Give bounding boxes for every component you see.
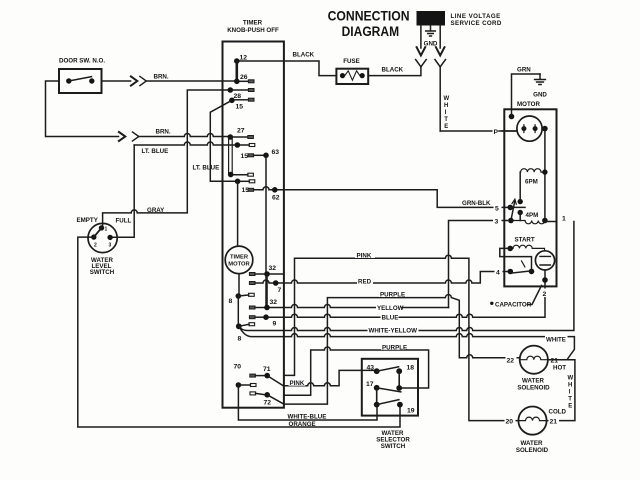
- svg-text:32: 32: [269, 265, 277, 272]
- timer motor M: [237, 181, 239, 246]
- svg-text:SWITCH: SWITCH: [90, 269, 115, 276]
- selector node 18: [396, 368, 402, 374]
- svg-text:START: START: [515, 236, 535, 243]
- terminal 15 lt.blue row dot: [235, 142, 241, 148]
- svg-text:WATER: WATER: [521, 440, 543, 447]
- pin 3: [493, 217, 502, 225]
- terminal 32b: [249, 306, 255, 309]
- timer box: [223, 42, 284, 408]
- blade 72: [267, 395, 284, 404]
- start sw frame jog: [500, 248, 532, 268]
- terminal 12: [234, 58, 240, 64]
- wire RED timer 7 to motor 4: [279, 272, 508, 284]
- solenoid HOT: [520, 346, 548, 374]
- svg-text:71: 71: [263, 366, 271, 373]
- svg-text:LINE VOLTAGE: LINE VOLTAGE: [451, 13, 501, 20]
- svg-text:TIMER: TIMER: [230, 255, 249, 261]
- svg-text:21: 21: [550, 419, 558, 426]
- selector blade 43-18: [377, 367, 399, 371]
- svg-text:GRN-BLK: GRN-BLK: [462, 200, 491, 207]
- svg-text:GRN: GRN: [517, 67, 531, 74]
- water level switch: [88, 223, 117, 252]
- selector node 18b: [396, 385, 402, 391]
- svg-text:5: 5: [495, 206, 499, 213]
- water selector switch box: [362, 359, 418, 416]
- motor box: [504, 109, 556, 286]
- svg-text:PURPLE: PURPLE: [380, 292, 405, 299]
- svg-text:E: E: [444, 124, 448, 130]
- svg-text:22: 22: [507, 358, 515, 365]
- service cord line L1 arrow: [420, 26, 422, 49]
- svg-text:FUSE: FUSE: [343, 58, 360, 65]
- blade 3 with arrow: [511, 201, 515, 221]
- svg-text:W: W: [444, 96, 450, 102]
- connector chevron on black line: [416, 60, 427, 67]
- svg-text:CONNECTION: CONNECTION: [328, 9, 410, 24]
- wire WHITE timer 8 to solenoid commons: [239, 326, 575, 358]
- link 12-26: [236, 61, 239, 81]
- svg-text:17: 17: [366, 381, 374, 388]
- terminal 8a: [236, 293, 242, 299]
- svg-text:WHITE-YELLOW: WHITE-YELLOW: [369, 328, 418, 335]
- svg-text:SERVICE CORD: SERVICE CORD: [451, 20, 502, 27]
- svg-text:HOT: HOT: [553, 364, 566, 371]
- coil 6PM: [520, 169, 545, 172]
- svg-text:LT. BLUE: LT. BLUE: [142, 148, 169, 155]
- wire LT. BLUE pressure sw to timer (hops over gray and lt.blue verticals): [134, 142, 237, 145]
- wire BRN to timer 27 (hops over gray and lt.blue verticals): [139, 134, 231, 137]
- svg-text:19: 19: [407, 408, 415, 415]
- motor main winding circle: [517, 116, 542, 141]
- svg-text:DOOR SW. N.O.: DOOR SW. N.O.: [59, 58, 105, 65]
- pin 1 wire to right rail down: [545, 221, 557, 223]
- svg-text:28: 28: [234, 93, 242, 100]
- svg-text:FULL: FULL: [116, 218, 132, 225]
- terminal 9: [249, 316, 255, 319]
- svg-text:SOLENOID: SOLENOID: [517, 385, 550, 392]
- link 32a-32b: [266, 274, 268, 308]
- terminal 15c (lt.blue 2): [235, 179, 241, 185]
- svg-text:COLD: COLD: [549, 409, 567, 416]
- node 2: [544, 270, 546, 280]
- terminal 70: [236, 382, 242, 388]
- wire ORANGE water level 2 down and across bottom to selector 19: [78, 237, 400, 427]
- svg-text:E: E: [568, 404, 572, 410]
- wire PURPLE (72 feed) to solenoid 22: [284, 295, 520, 405]
- wire WHITE service cord down to motor P: [439, 67, 441, 131]
- selector node 17: [374, 385, 380, 391]
- svg-text:BLACK: BLACK: [293, 52, 315, 59]
- svg-text:32: 32: [270, 299, 278, 306]
- pin P: [493, 127, 502, 135]
- wire BLACK timer12 to fuse: [237, 61, 337, 76]
- motor right rail: [542, 126, 548, 132]
- svg-text:MOTOR: MOTOR: [228, 262, 250, 268]
- svg-text:6PM: 6PM: [525, 179, 538, 186]
- svg-text:BLACK: BLACK: [382, 67, 404, 74]
- svg-text:4: 4: [496, 270, 500, 277]
- svg-text:26: 26: [240, 74, 248, 81]
- link 27 bar: [229, 137, 233, 175]
- selector blade 17b-19: [377, 400, 399, 405]
- wire BLUE timer 9 to motor 2: [269, 280, 545, 317]
- svg-text:WATER: WATER: [522, 378, 544, 385]
- node mid: [518, 210, 523, 215]
- terminal 8b: [236, 323, 242, 329]
- svg-text:SWITCH: SWITCH: [381, 443, 406, 450]
- svg-text:T: T: [568, 397, 572, 403]
- svg-text:MOTOR: MOTOR: [517, 101, 540, 108]
- svg-text:43: 43: [367, 365, 375, 372]
- svg-text:BLUE: BLUE: [382, 314, 399, 321]
- wire 63 vertical to 32-32: [265, 155, 267, 307]
- capacitor callout: [490, 302, 493, 305]
- terminal 71: [264, 373, 270, 379]
- svg-text:18: 18: [407, 365, 415, 372]
- terminal 72: [264, 392, 270, 398]
- svg-text:12: 12: [240, 55, 248, 62]
- terminal 15a: [229, 98, 235, 104]
- selector link 17-17b: [376, 388, 378, 405]
- wire LT. BLUE 15a slant and vertical to timer 15c: [210, 100, 237, 181]
- terminal 7 (hop over 63 link): [249, 282, 255, 285]
- wire PINK 71 to selector 43: [284, 370, 374, 385]
- selector blade 17: [377, 388, 401, 392]
- terminal 26: [234, 79, 240, 85]
- wire to motor terminal P: [440, 130, 517, 132]
- svg-text:ORANGE: ORANGE: [289, 421, 316, 428]
- selector node 19: [397, 402, 403, 408]
- svg-text:4PM: 4PM: [526, 212, 539, 219]
- svg-text:LT. BLUE: LT. BLUE: [193, 165, 220, 172]
- svg-text:T: T: [444, 117, 448, 123]
- svg-text:2: 2: [543, 291, 547, 298]
- connector (lower BRN): [119, 132, 125, 141]
- node grn inside motor: [509, 114, 515, 120]
- svg-text:EMPTY: EMPTY: [77, 217, 99, 224]
- wire 15c contact to 62 (hop over 63 vertical): [254, 187, 275, 190]
- service cord block: [417, 11, 446, 26]
- svg-text:RED: RED: [358, 279, 372, 286]
- svg-text:2: 2: [94, 243, 97, 249]
- svg-text:27: 27: [237, 128, 245, 135]
- pin 5: [494, 204, 502, 212]
- wire PINK 71 feed: right edge up to pink run: [284, 255, 519, 420]
- svg-text:CAPACITOR: CAPACITOR: [495, 302, 532, 309]
- service cord line L2 arrow: [439, 26, 441, 49]
- svg-text:P: P: [494, 129, 499, 136]
- wire 3 vertical and into motor 3: [449, 221, 508, 308]
- wire BRN door switch to timer 26: [102, 80, 131, 82]
- svg-text:PINK: PINK: [290, 380, 305, 387]
- coil 4PM: [511, 221, 545, 224]
- svg-text:GRAY: GRAY: [147, 207, 165, 214]
- wire BLACK fuse to service cord: [368, 67, 421, 76]
- terminal 27: [228, 134, 234, 140]
- svg-text:BRN.: BRN.: [154, 74, 169, 81]
- svg-text:15: 15: [236, 104, 244, 111]
- svg-text:1: 1: [105, 227, 108, 233]
- node link-27 bottom: [228, 172, 234, 178]
- wire YELLOW timer 32b to motor-3 junction: [270, 305, 449, 308]
- svg-text:7: 7: [278, 287, 282, 294]
- svg-text:3: 3: [495, 219, 499, 226]
- svg-text:15: 15: [241, 153, 249, 160]
- solenoid COLD: [518, 407, 546, 435]
- selector node 43: [374, 368, 380, 374]
- svg-text:BRN.: BRN.: [156, 129, 171, 136]
- svg-text:PURPLE: PURPLE: [382, 344, 407, 351]
- svg-text:20: 20: [506, 419, 514, 426]
- svg-text:H: H: [444, 103, 448, 109]
- wire GRAY pressure sw to timer 28 (hop over lt.blue vertical): [103, 90, 231, 227]
- terminal 28: [228, 87, 234, 93]
- svg-text:TIMER: TIMER: [243, 20, 263, 27]
- svg-text:8: 8: [229, 298, 233, 305]
- selector link 18-18b: [398, 371, 400, 388]
- svg-text:YELLOW: YELLOW: [377, 305, 404, 312]
- svg-text:63: 63: [272, 149, 280, 156]
- selector node 17b: [374, 402, 380, 408]
- wire 21 hot to white rail: [546, 360, 575, 421]
- blade 4: [510, 271, 531, 273]
- svg-text:72: 72: [264, 400, 272, 407]
- connector chevron on white line: [435, 60, 446, 67]
- svg-text:62: 62: [272, 195, 280, 202]
- title CONNECTION DIAGRAM: [328, 9, 410, 40]
- wire WHITE-YELLOW timer 8 to motor 1: [239, 222, 574, 331]
- blade 71: [267, 376, 284, 387]
- svg-text:8: 8: [238, 336, 242, 343]
- ground symbol (service cord): [430, 26, 432, 31]
- svg-text:KNOB-PUSH OFF: KNOB-PUSH OFF: [227, 27, 279, 34]
- terminal 62: [272, 187, 278, 193]
- terminal 32a: [249, 273, 255, 276]
- connector (upper BRN): [131, 76, 137, 85]
- node 63: [263, 153, 269, 159]
- svg-text:GND: GND: [533, 92, 547, 99]
- svg-text:H: H: [568, 383, 572, 389]
- capacitor circle: [535, 251, 554, 270]
- svg-text:SOLENOID: SOLENOID: [516, 447, 549, 454]
- svg-text:PINK: PINK: [357, 253, 372, 260]
- svg-text:WHITE-BLUE: WHITE-BLUE: [288, 414, 327, 421]
- wire door switch left loop down: [46, 81, 119, 137]
- svg-text:WHITE: WHITE: [546, 337, 566, 344]
- svg-text:1: 1: [562, 216, 566, 223]
- svg-text:DIAGRAM: DIAGRAM: [342, 24, 400, 39]
- svg-text:70: 70: [234, 364, 242, 371]
- svg-text:9: 9: [273, 321, 277, 328]
- svg-text:W: W: [568, 376, 574, 382]
- wire GRN to ground: [512, 74, 541, 117]
- wire WHITE-BLUE 70 to selector: [238, 385, 377, 420]
- svg-text:3: 3: [109, 243, 112, 249]
- wire 72 alt contact to selector 18 (hop over purple vertical): [284, 347, 429, 395]
- wire GRN-BLK 62 to motor 5: [278, 190, 508, 208]
- fuse F1: [336, 69, 368, 84]
- ground symbol (motor): [539, 74, 541, 79]
- svg-text:GND: GND: [424, 41, 438, 48]
- pin 4: [495, 268, 503, 276]
